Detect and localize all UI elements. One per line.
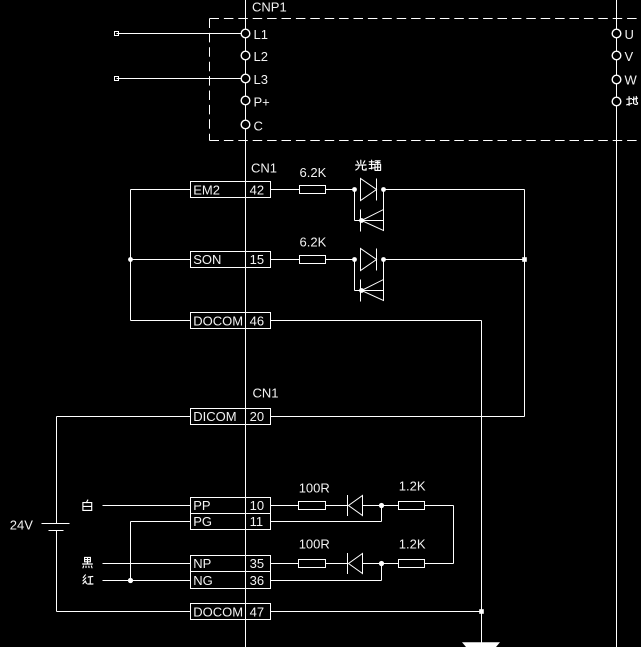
wire DICOM row right xyxy=(271,416,525,418)
svg-text:PP: PP xyxy=(193,498,210,513)
wire opto left drop xyxy=(354,260,356,291)
terminal W xyxy=(612,75,621,84)
node junction left bus / SON xyxy=(128,257,133,262)
terminal ground 地 xyxy=(612,97,621,106)
resistor 6.2K (SON) xyxy=(300,256,326,264)
resistor 1.2K (NP) xyxy=(399,560,425,568)
svg-text:C: C xyxy=(254,118,263,133)
wire left bus EM2-DOCOM vertical xyxy=(130,190,132,321)
label 白 (white) glyph xyxy=(83,500,92,510)
node junction 红 / PG link xyxy=(128,578,133,583)
svg-text:24V: 24V xyxy=(10,517,33,532)
connector box PP xyxy=(191,498,271,514)
wire opto right drop xyxy=(383,260,385,280)
wire NP from 黑 xyxy=(103,563,191,565)
wire DOCOM46 right xyxy=(271,320,482,322)
svg-text:6.2K: 6.2K xyxy=(300,165,327,180)
servo amplifier dashed outline xyxy=(210,19,641,141)
svg-text:35: 35 xyxy=(250,556,264,571)
svg-text:100R: 100R xyxy=(299,537,330,552)
terminal C xyxy=(241,120,250,129)
wire 1.2K to right loop (PP) xyxy=(425,505,454,507)
resistor 100R (NP) xyxy=(299,560,326,568)
node opto right xyxy=(381,257,386,262)
wire EM2 to right bus xyxy=(384,189,525,191)
wire NG up link xyxy=(381,564,383,581)
wire PP from 白 xyxy=(103,505,191,507)
node opto right xyxy=(381,187,386,192)
wire L3 input xyxy=(117,78,242,80)
connector box DOCOM xyxy=(191,313,271,329)
wire DOCOM47 row left xyxy=(57,611,191,613)
optocoupler input (SON row) xyxy=(352,249,386,302)
node opto lower apex xyxy=(359,288,364,293)
wire SON left xyxy=(131,259,191,261)
svg-text:10: 10 xyxy=(250,498,264,513)
connector box NG xyxy=(191,572,271,589)
svg-text:L3: L3 xyxy=(254,72,268,87)
battery 24V positive plate xyxy=(42,523,70,525)
diode D (opto upper, SON) xyxy=(361,249,377,271)
wire DOCOM47 right xyxy=(271,611,482,613)
wire SON to right bus xyxy=(384,259,525,261)
svg-text:36: 36 xyxy=(250,573,264,588)
node junction PP/PG xyxy=(379,503,384,508)
svg-text:CNP1: CNP1 xyxy=(252,0,287,14)
connector box SON xyxy=(191,252,271,268)
svg-text:U: U xyxy=(625,27,634,42)
wire PP right xyxy=(271,505,299,507)
svg-text:15: 15 xyxy=(250,252,264,267)
optocoupler input (EM2 row) xyxy=(352,179,386,232)
wire PG right xyxy=(271,521,382,523)
connector box NP xyxy=(191,556,271,572)
wire 1.2K to right loop (NP) xyxy=(425,563,454,565)
wire PG left xyxy=(131,521,191,523)
svg-text:P+: P+ xyxy=(254,94,270,109)
wire 24V supply left vertical (upper) xyxy=(56,417,58,524)
wire PG to NG vertical link xyxy=(130,522,132,581)
wire NP right xyxy=(271,563,299,565)
diode D (PP row) xyxy=(348,495,363,516)
svg-text:CN1: CN1 xyxy=(251,161,277,176)
svg-text:20: 20 xyxy=(250,409,264,424)
resistor 1.2K (PP) xyxy=(399,502,425,510)
svg-text:NP: NP xyxy=(193,556,211,571)
resistor 100R (PP) xyxy=(299,502,326,510)
diode D (opto lower, EM2) reversed xyxy=(362,210,384,231)
label 红 (red) glyph xyxy=(83,575,93,584)
wire 24V supply left vertical (lower) xyxy=(56,531,58,612)
svg-text:NG: NG xyxy=(193,573,213,588)
node junction DOCOM47 / ground bus xyxy=(479,609,484,614)
wire EM2 left xyxy=(131,189,191,191)
svg-text:46: 46 xyxy=(250,313,264,328)
terminal P+ xyxy=(241,96,250,105)
svg-text:L1: L1 xyxy=(254,27,268,42)
svg-text:42: 42 xyxy=(250,182,264,197)
svg-text:100R: 100R xyxy=(299,481,330,496)
ground (protective earth) xyxy=(462,642,500,647)
svg-text:1.2K: 1.2K xyxy=(399,537,426,552)
node opto left xyxy=(352,187,357,192)
svg-text:W: W xyxy=(625,73,638,88)
terminal L1 xyxy=(241,29,250,38)
svg-text:V: V xyxy=(625,49,634,64)
connector box PG xyxy=(191,514,271,530)
svg-text:11: 11 xyxy=(250,514,264,529)
svg-text:EM2: EM2 xyxy=(193,182,220,197)
wire L1 input xyxy=(117,33,242,35)
svg-text:DOCOM: DOCOM xyxy=(193,313,243,328)
wire DOCOM bus vertical xyxy=(481,321,483,643)
connector box EM2 xyxy=(191,182,271,198)
wire 100R to diode (PP) xyxy=(326,505,348,507)
wire opto bottom xyxy=(355,290,384,292)
terminal U xyxy=(612,29,621,38)
terminal L3 xyxy=(241,74,250,83)
wire resistor to opto (EM2) xyxy=(326,189,355,191)
diode D (NP row) xyxy=(348,553,363,574)
battery 24V negative plate xyxy=(49,530,64,532)
terminal V xyxy=(612,51,621,60)
wire SON right xyxy=(271,259,300,261)
wire motor terminal vertical line xyxy=(616,0,618,647)
wire resistor to opto (SON) xyxy=(326,259,355,261)
label 地 (earth) glyph xyxy=(627,96,638,105)
diode D (opto lower, SON) reversed xyxy=(362,280,384,301)
wire opto bottom xyxy=(355,220,384,222)
wire diode to node (NP) xyxy=(363,563,399,565)
wire EM2 right xyxy=(271,189,300,191)
wire NG right xyxy=(271,580,382,582)
node junction NP/NG xyxy=(379,561,384,566)
node L1 input stub xyxy=(115,32,119,36)
svg-text:L2: L2 xyxy=(254,49,268,64)
wire diode to node (PP) xyxy=(363,505,399,507)
resistor 6.2K (EM2) xyxy=(300,186,326,194)
wire 100R to diode (NP) xyxy=(326,563,348,565)
svg-text:DOCOM: DOCOM xyxy=(193,604,243,619)
svg-text:SON: SON xyxy=(193,252,221,267)
diode D (opto upper, EM2) xyxy=(361,179,377,201)
wire right bus vertical (EM2/SON to DICOM) xyxy=(524,190,526,417)
node L3 input stub xyxy=(115,77,119,81)
svg-text:CN1: CN1 xyxy=(253,386,279,401)
svg-text:47: 47 xyxy=(250,604,264,619)
wire NG from 红 xyxy=(103,580,191,582)
wire opto left drop xyxy=(354,190,356,221)
svg-text:1.2K: 1.2K xyxy=(399,479,426,494)
node opto lower apex xyxy=(359,218,364,223)
svg-text:6.2K: 6.2K xyxy=(300,234,327,249)
label 光耦 glyphs xyxy=(356,160,381,170)
svg-text:DICOM: DICOM xyxy=(193,409,236,424)
wire opto right drop xyxy=(383,190,385,210)
connector box DOCOM (47) xyxy=(191,604,271,620)
wire main CN1/CNP1 connector vertical line xyxy=(245,0,247,647)
svg-text:PG: PG xyxy=(193,514,212,529)
wire DICOM row xyxy=(57,416,191,418)
terminal L2 xyxy=(241,51,250,60)
node opto left xyxy=(352,257,357,262)
wire DOCOM46 left xyxy=(131,320,191,322)
node junction right bus / SON xyxy=(522,257,527,262)
wire pulse loop vertical xyxy=(453,506,455,564)
wire PG up link xyxy=(381,506,383,522)
label 黑 (black) glyph xyxy=(83,557,93,567)
connector box DICOM xyxy=(191,409,271,425)
